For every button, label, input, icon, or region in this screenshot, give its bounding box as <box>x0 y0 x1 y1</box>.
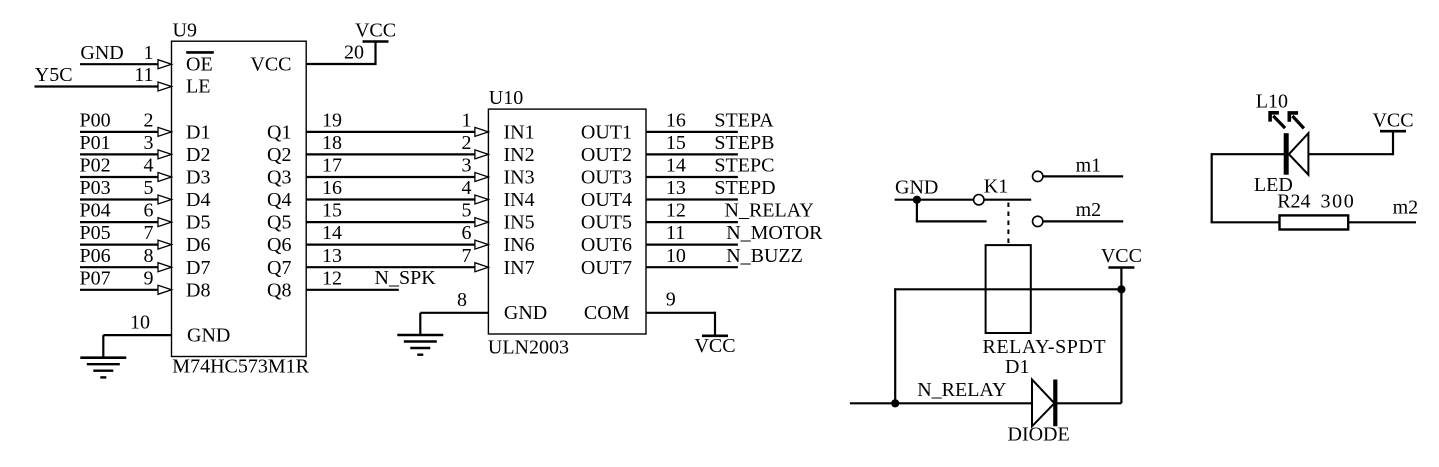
wire U9 pin 9 (P07) <box>80 285 172 294</box>
svg-text:3: 3 <box>462 155 472 177</box>
svg-text:D8: D8 <box>186 279 210 301</box>
svg-text:IN6: IN6 <box>504 234 535 256</box>
svg-text:STEPA: STEPA <box>714 110 774 132</box>
net label P00 <box>80 110 111 132</box>
wire U10 OUT1 (pin 16) <box>646 131 738 133</box>
value label DIODE <box>1008 423 1070 445</box>
pin number 14 <box>322 222 342 244</box>
pin number 2 <box>144 110 154 132</box>
svg-text:2: 2 <box>462 132 472 154</box>
net label STEPA <box>714 110 774 132</box>
svg-text:R24: R24 <box>1277 190 1310 212</box>
svg-text:GND: GND <box>895 177 938 199</box>
value label RELAY-SPDT <box>983 336 1107 358</box>
wire VCC down to diode <box>1120 268 1122 404</box>
svg-text:Y5C: Y5C <box>35 64 73 86</box>
svg-text:m1: m1 <box>1076 155 1102 177</box>
pin number 16 <box>322 177 342 199</box>
wire U9 pin 20 to VCC <box>306 42 375 66</box>
wire U9 pin 5 (P03) <box>80 195 172 204</box>
pin number 11 <box>666 222 685 244</box>
pin number 9 <box>666 289 676 311</box>
svg-text:P06: P06 <box>80 245 111 267</box>
svg-text:10: 10 <box>130 312 150 334</box>
U10 pin name OUT6 <box>581 234 632 256</box>
svg-text:VCC: VCC <box>355 20 396 42</box>
svg-text:ULN2003: ULN2003 <box>488 337 569 359</box>
K1 designator <box>984 176 1008 198</box>
net label P04 <box>80 200 111 222</box>
wire bottom to resistor <box>1211 221 1280 223</box>
U9 pin name D5 <box>186 212 210 234</box>
wire through relay coil <box>895 288 1121 290</box>
svg-text:6: 6 <box>462 222 472 244</box>
pin number 5 <box>462 200 472 222</box>
pin number 17 <box>322 155 342 177</box>
svg-text:4: 4 <box>144 155 154 177</box>
svg-text:9: 9 <box>666 289 676 311</box>
pin number 14 <box>666 155 686 177</box>
svg-text:GND: GND <box>187 325 230 347</box>
pin number 3 <box>462 155 472 177</box>
svg-text:D4: D4 <box>186 189 210 211</box>
wire U9 pin 8 (P06) <box>80 263 172 272</box>
svg-text:D6: D6 <box>186 234 210 256</box>
svg-text:m2: m2 <box>1076 199 1102 221</box>
svg-text:DIODE: DIODE <box>1008 423 1070 445</box>
U10 pin name OUT5 <box>581 212 632 234</box>
wire N_RELAY <box>850 402 1032 404</box>
svg-text:IN7: IN7 <box>504 257 535 279</box>
pin number 2 <box>462 132 472 154</box>
svg-text:N_MOTOR: N_MOTOR <box>726 222 823 244</box>
pin number 1 <box>144 42 154 64</box>
U9 pin name Q8 <box>267 279 291 301</box>
svg-text:3: 3 <box>144 132 154 154</box>
net label P07 <box>80 267 111 289</box>
svg-text:16: 16 <box>322 177 342 199</box>
net label N_MOTOR <box>726 222 823 244</box>
svg-text:IN2: IN2 <box>504 144 535 166</box>
U9 pin name D4 <box>186 189 210 211</box>
svg-text:P02: P02 <box>80 155 111 177</box>
U10 designator <box>489 87 523 109</box>
svg-text:14: 14 <box>322 222 342 244</box>
junction dot at VCC vertical <box>1117 285 1125 293</box>
U10 pin name COM <box>584 302 630 324</box>
LED value label <box>1254 174 1293 196</box>
svg-text:7: 7 <box>462 245 472 267</box>
svg-text:OUT4: OUT4 <box>581 189 632 211</box>
U10 pin name OUT4 <box>581 189 632 211</box>
svg-text:N_RELAY: N_RELAY <box>917 379 1006 401</box>
svg-text:8: 8 <box>457 289 467 311</box>
wire U10 OUT2 (pin 15) <box>646 153 738 155</box>
svg-text:N_SPK: N_SPK <box>375 267 437 289</box>
wire U9 pin 10 to ground <box>103 335 171 358</box>
dashed actuator link <box>1007 203 1009 245</box>
svg-text:10: 10 <box>666 245 686 267</box>
svg-text:P01: P01 <box>80 132 111 154</box>
power symbol VCC (relay) <box>1101 245 1142 268</box>
wire resistor to m2 <box>1348 221 1416 223</box>
U9 part value M74HC573M1R <box>172 356 309 378</box>
svg-text:N_BUZZ: N_BUZZ <box>726 245 803 267</box>
svg-text:Q6: Q6 <box>267 234 291 256</box>
svg-text:STEPD: STEPD <box>714 177 775 199</box>
U9 pin name Q2 <box>267 144 291 166</box>
pin number 6 <box>462 222 472 244</box>
svg-text:VCC: VCC <box>250 53 291 75</box>
svg-text:D5: D5 <box>186 212 210 234</box>
D1 designator <box>1005 356 1029 378</box>
net label GND (U9 pin 1) <box>80 42 123 64</box>
svg-text:300: 300 <box>1321 190 1356 212</box>
svg-text:11: 11 <box>134 64 153 86</box>
U10 pin name IN1 <box>504 122 535 144</box>
svg-text:OUT5: OUT5 <box>581 212 632 234</box>
svg-text:STEPB: STEPB <box>714 132 774 154</box>
svg-text:P07: P07 <box>80 267 111 289</box>
U9 pin name D7 <box>186 257 210 279</box>
wire U10 OUT7 (pin 10) <box>646 266 738 268</box>
power symbol VCC (LED) <box>1372 110 1413 132</box>
wire U10 OUT4 (pin 13) <box>646 198 738 200</box>
svg-text:Q1: Q1 <box>267 122 291 144</box>
throw contact circle m1 <box>1033 171 1043 181</box>
net label STEPD <box>714 177 775 199</box>
IC U10 body <box>488 109 646 334</box>
wire U9 Q7 (pin 13) to U10 IN7 (pin 7) <box>306 263 488 272</box>
wire U9 pin 11 (Y5C) <box>35 82 172 91</box>
svg-text:7: 7 <box>144 222 154 244</box>
pin number 18 <box>322 132 342 154</box>
svg-text:17: 17 <box>322 155 342 177</box>
svg-text:1: 1 <box>462 110 472 132</box>
svg-text:D1: D1 <box>1005 356 1029 378</box>
U9 pin name VCC (pin 20) <box>250 53 291 75</box>
net label N_BUZZ <box>726 245 803 267</box>
svg-text:K1: K1 <box>984 176 1008 198</box>
svg-text:5: 5 <box>144 177 154 199</box>
U10 part value ULN2003 <box>488 337 569 359</box>
wire LED left vertical <box>1211 153 1213 222</box>
wire GND to switch pivot <box>895 199 974 201</box>
pin number 1 <box>462 110 472 132</box>
svg-text:STEPC: STEPC <box>714 155 774 177</box>
net label STEPC <box>714 155 774 177</box>
svg-text:VCC: VCC <box>1372 110 1413 132</box>
switch pivot circle K1 <box>974 195 984 205</box>
wire U10 pin 9 (COM) to VCC <box>646 312 715 336</box>
svg-text:VCC: VCC <box>1101 245 1142 267</box>
wire U9 Q8 (pin 12, N_SPK) <box>306 289 399 291</box>
svg-text:15: 15 <box>322 200 342 222</box>
wire U9 pin 2 (P00) <box>80 127 172 136</box>
svg-text:VCC: VCC <box>694 335 735 357</box>
pin number 8 <box>457 289 467 311</box>
pin number 10 <box>130 312 150 334</box>
pin number 4 <box>144 155 154 177</box>
wire U9 pin 4 (P02) <box>80 173 172 182</box>
svg-text:N_RELAY: N_RELAY <box>725 200 814 222</box>
pin number 10 <box>666 245 686 267</box>
U9 pin name GND (pin 10) <box>187 325 230 347</box>
svg-text:OUT7: OUT7 <box>581 257 632 279</box>
pin number 8 <box>144 245 154 267</box>
pin number 20 <box>344 42 364 64</box>
U9 pin name LE <box>186 76 210 98</box>
wire left vertical (coil to N_RELAY) <box>894 288 896 403</box>
wire U9 Q6 (pin 14) to U10 IN6 (pin 6) <box>306 240 488 249</box>
svg-text:U10: U10 <box>489 87 523 109</box>
svg-text:IN5: IN5 <box>504 212 535 234</box>
svg-text:Q7: Q7 <box>267 257 291 279</box>
U9 pin name Q5 <box>267 212 291 234</box>
svg-text:Q3: Q3 <box>267 167 291 189</box>
U9 pin name Q7 <box>267 257 291 279</box>
switch blade <box>984 199 1031 201</box>
wire m1 <box>1043 175 1123 177</box>
svg-text:Q8: Q8 <box>267 279 291 301</box>
svg-text:Q2: Q2 <box>267 144 291 166</box>
ground symbol (U10 pin 8) <box>397 335 443 355</box>
wire U10 pin 8 to ground <box>420 313 488 335</box>
pin number 15 <box>666 132 686 154</box>
pin number 9 <box>144 267 154 289</box>
svg-text:8: 8 <box>144 245 154 267</box>
U10 pin name IN5 <box>504 212 535 234</box>
diode D1 triangle <box>1032 380 1054 427</box>
svg-text:Q4: Q4 <box>267 189 291 211</box>
net label P01 <box>80 132 111 154</box>
svg-text:20: 20 <box>344 42 364 64</box>
pin number 3 <box>144 132 154 154</box>
svg-text:GND: GND <box>80 42 123 64</box>
svg-text:9: 9 <box>144 267 154 289</box>
wire junction down and right (lower contact) <box>916 200 987 222</box>
wire U9 pin 1 (GND) <box>80 60 172 69</box>
U9 pin name D3 <box>186 167 210 189</box>
net label m1 <box>1076 155 1102 177</box>
svg-text:Q5: Q5 <box>267 212 291 234</box>
pin number 12 <box>322 267 342 289</box>
svg-text:OUT2: OUT2 <box>581 144 632 166</box>
net label N_SPK <box>375 267 437 289</box>
U10 pin name OUT1 <box>581 122 632 144</box>
svg-text:m2: m2 <box>1393 197 1419 219</box>
pin number 6 <box>144 200 154 222</box>
pin number 5 <box>144 177 154 199</box>
U10 pin name OUT2 <box>581 144 632 166</box>
svg-text:P04: P04 <box>80 200 111 222</box>
net label Y5C <box>35 64 73 86</box>
svg-text:P00: P00 <box>80 110 111 132</box>
net label P02 <box>80 155 111 177</box>
svg-text:19: 19 <box>322 110 342 132</box>
wire U10 OUT3 (pin 14) <box>646 176 738 178</box>
U10 pin name IN7 <box>504 257 535 279</box>
U10 pin name IN4 <box>504 189 535 211</box>
pin number 7 <box>462 245 472 267</box>
pin number 16 <box>666 110 686 132</box>
throw contact circle m2 <box>1033 216 1043 226</box>
svg-text:U9: U9 <box>173 20 197 42</box>
junction dot at N_RELAY <box>891 399 899 407</box>
wire U9 Q4 (pin 16) to U10 IN4 (pin 4) <box>306 195 488 204</box>
U9 pin name D6 <box>186 234 210 256</box>
pin number 7 <box>144 222 154 244</box>
U9 pin name Q3 <box>267 167 291 189</box>
svg-text:14: 14 <box>666 155 686 177</box>
U9 pin name Q1 <box>267 122 291 144</box>
LED triangle <box>1289 133 1309 175</box>
svg-text:D3: D3 <box>186 167 210 189</box>
wire U10 OUT6 (pin 11) <box>646 244 738 246</box>
LED light arrow 2 <box>1288 111 1304 128</box>
wire U9 pin 6 (P04) <box>80 218 172 227</box>
R24 value 300 <box>1321 190 1356 212</box>
svg-text:OUT6: OUT6 <box>581 234 632 256</box>
net label N_RELAY <box>917 379 1006 401</box>
U10 pin name IN6 <box>504 234 535 256</box>
U10 pin name GND <box>504 302 547 324</box>
pin number 11 <box>134 64 153 86</box>
U9 pin name D1 <box>186 122 210 144</box>
U10 pin name OUT3 <box>581 167 632 189</box>
svg-text:L10: L10 <box>1256 91 1288 113</box>
svg-text:D7: D7 <box>186 257 210 279</box>
pin number 12 <box>666 200 686 222</box>
svg-text:RELAY-SPDT: RELAY-SPDT <box>983 336 1107 358</box>
IC U9 body <box>172 41 307 356</box>
wire U9 Q1 (pin 19) to U10 IN1 (pin 1) <box>306 127 488 136</box>
svg-text:IN4: IN4 <box>504 189 535 211</box>
net label N_RELAY <box>725 200 814 222</box>
svg-text:P05: P05 <box>80 222 111 244</box>
pin number 19 <box>322 110 342 132</box>
svg-text:1: 1 <box>144 42 154 64</box>
svg-text:IN3: IN3 <box>504 167 535 189</box>
svg-text:13: 13 <box>322 245 342 267</box>
svg-text:13: 13 <box>666 177 686 199</box>
svg-text:12: 12 <box>322 267 342 289</box>
wire LED anode to VCC <box>1308 131 1393 155</box>
LED light arrow 1 <box>1268 111 1285 128</box>
U9 pin name D8 <box>186 279 210 301</box>
svg-text:P03: P03 <box>80 177 111 199</box>
wire U9 Q5 (pin 15) to U10 IN5 (pin 5) <box>306 218 488 227</box>
pin number 4 <box>462 177 472 199</box>
U9 pin name Q6 <box>267 234 291 256</box>
svg-text:4: 4 <box>462 177 472 199</box>
net label P03 <box>80 177 111 199</box>
L10 designator <box>1256 91 1288 113</box>
LED cathode bar <box>1284 133 1289 175</box>
R24 designator <box>1277 190 1310 212</box>
svg-text:2: 2 <box>144 110 154 132</box>
svg-text:LE: LE <box>186 76 210 98</box>
svg-text:OUT3: OUT3 <box>581 167 632 189</box>
U9 pin name OE with overbar <box>186 52 214 75</box>
wire U10 OUT5 (pin 12) <box>646 221 738 223</box>
wire U9 Q2 (pin 18) to U10 IN2 (pin 2) <box>306 150 488 159</box>
svg-text:16: 16 <box>666 110 686 132</box>
U9 designator <box>173 20 197 42</box>
wire U9 pin 3 (P01) <box>80 150 172 159</box>
net label STEPB <box>714 132 774 154</box>
U9 pin name D2 <box>186 144 210 166</box>
svg-text:OUT1: OUT1 <box>581 122 632 144</box>
svg-text:15: 15 <box>666 132 686 154</box>
wire U9 pin 7 (P05) <box>80 240 172 249</box>
U10 pin name IN2 <box>504 144 535 166</box>
svg-text:OE: OE <box>186 53 213 75</box>
net label m2 (LED) <box>1393 197 1419 219</box>
wire m2 <box>1043 220 1123 222</box>
net label m2 (relay) <box>1076 199 1102 221</box>
pin number 13 <box>666 177 686 199</box>
U10 pin name IN3 <box>504 167 535 189</box>
svg-text:12: 12 <box>666 200 686 222</box>
wire diode to VCC vertical <box>1057 402 1121 404</box>
svg-text:IN1: IN1 <box>504 122 535 144</box>
svg-text:D2: D2 <box>186 144 210 166</box>
svg-text:18: 18 <box>322 132 342 154</box>
net label P05 <box>80 222 111 244</box>
svg-text:COM: COM <box>584 302 630 324</box>
pin number 13 <box>322 245 342 267</box>
junction dot on GND wire <box>913 196 921 204</box>
U10 pin name OUT7 <box>581 257 632 279</box>
U9 pin name Q4 <box>267 189 291 211</box>
diode D1 cathode bar <box>1053 380 1057 427</box>
wire U9 Q3 (pin 17) to U10 IN3 (pin 3) <box>306 173 488 182</box>
svg-text:11: 11 <box>666 222 685 244</box>
relay coil box <box>986 245 1031 333</box>
ground symbol (U9 pin 10) <box>80 358 126 378</box>
resistor R24 body <box>1280 215 1349 229</box>
svg-text:M74HC573M1R: M74HC573M1R <box>172 356 309 378</box>
power symbol VCC (below COM, inverted) <box>694 335 735 357</box>
svg-text:D1: D1 <box>186 122 210 144</box>
net label P06 <box>80 245 111 267</box>
power symbol VCC (top of U9) <box>355 20 396 42</box>
svg-text:5: 5 <box>462 200 472 222</box>
svg-text:6: 6 <box>144 200 154 222</box>
pin number 15 <box>322 200 342 222</box>
svg-text:GND: GND <box>504 302 547 324</box>
wire left to LED cathode <box>1212 153 1284 155</box>
power label GND (relay common) <box>895 177 938 199</box>
